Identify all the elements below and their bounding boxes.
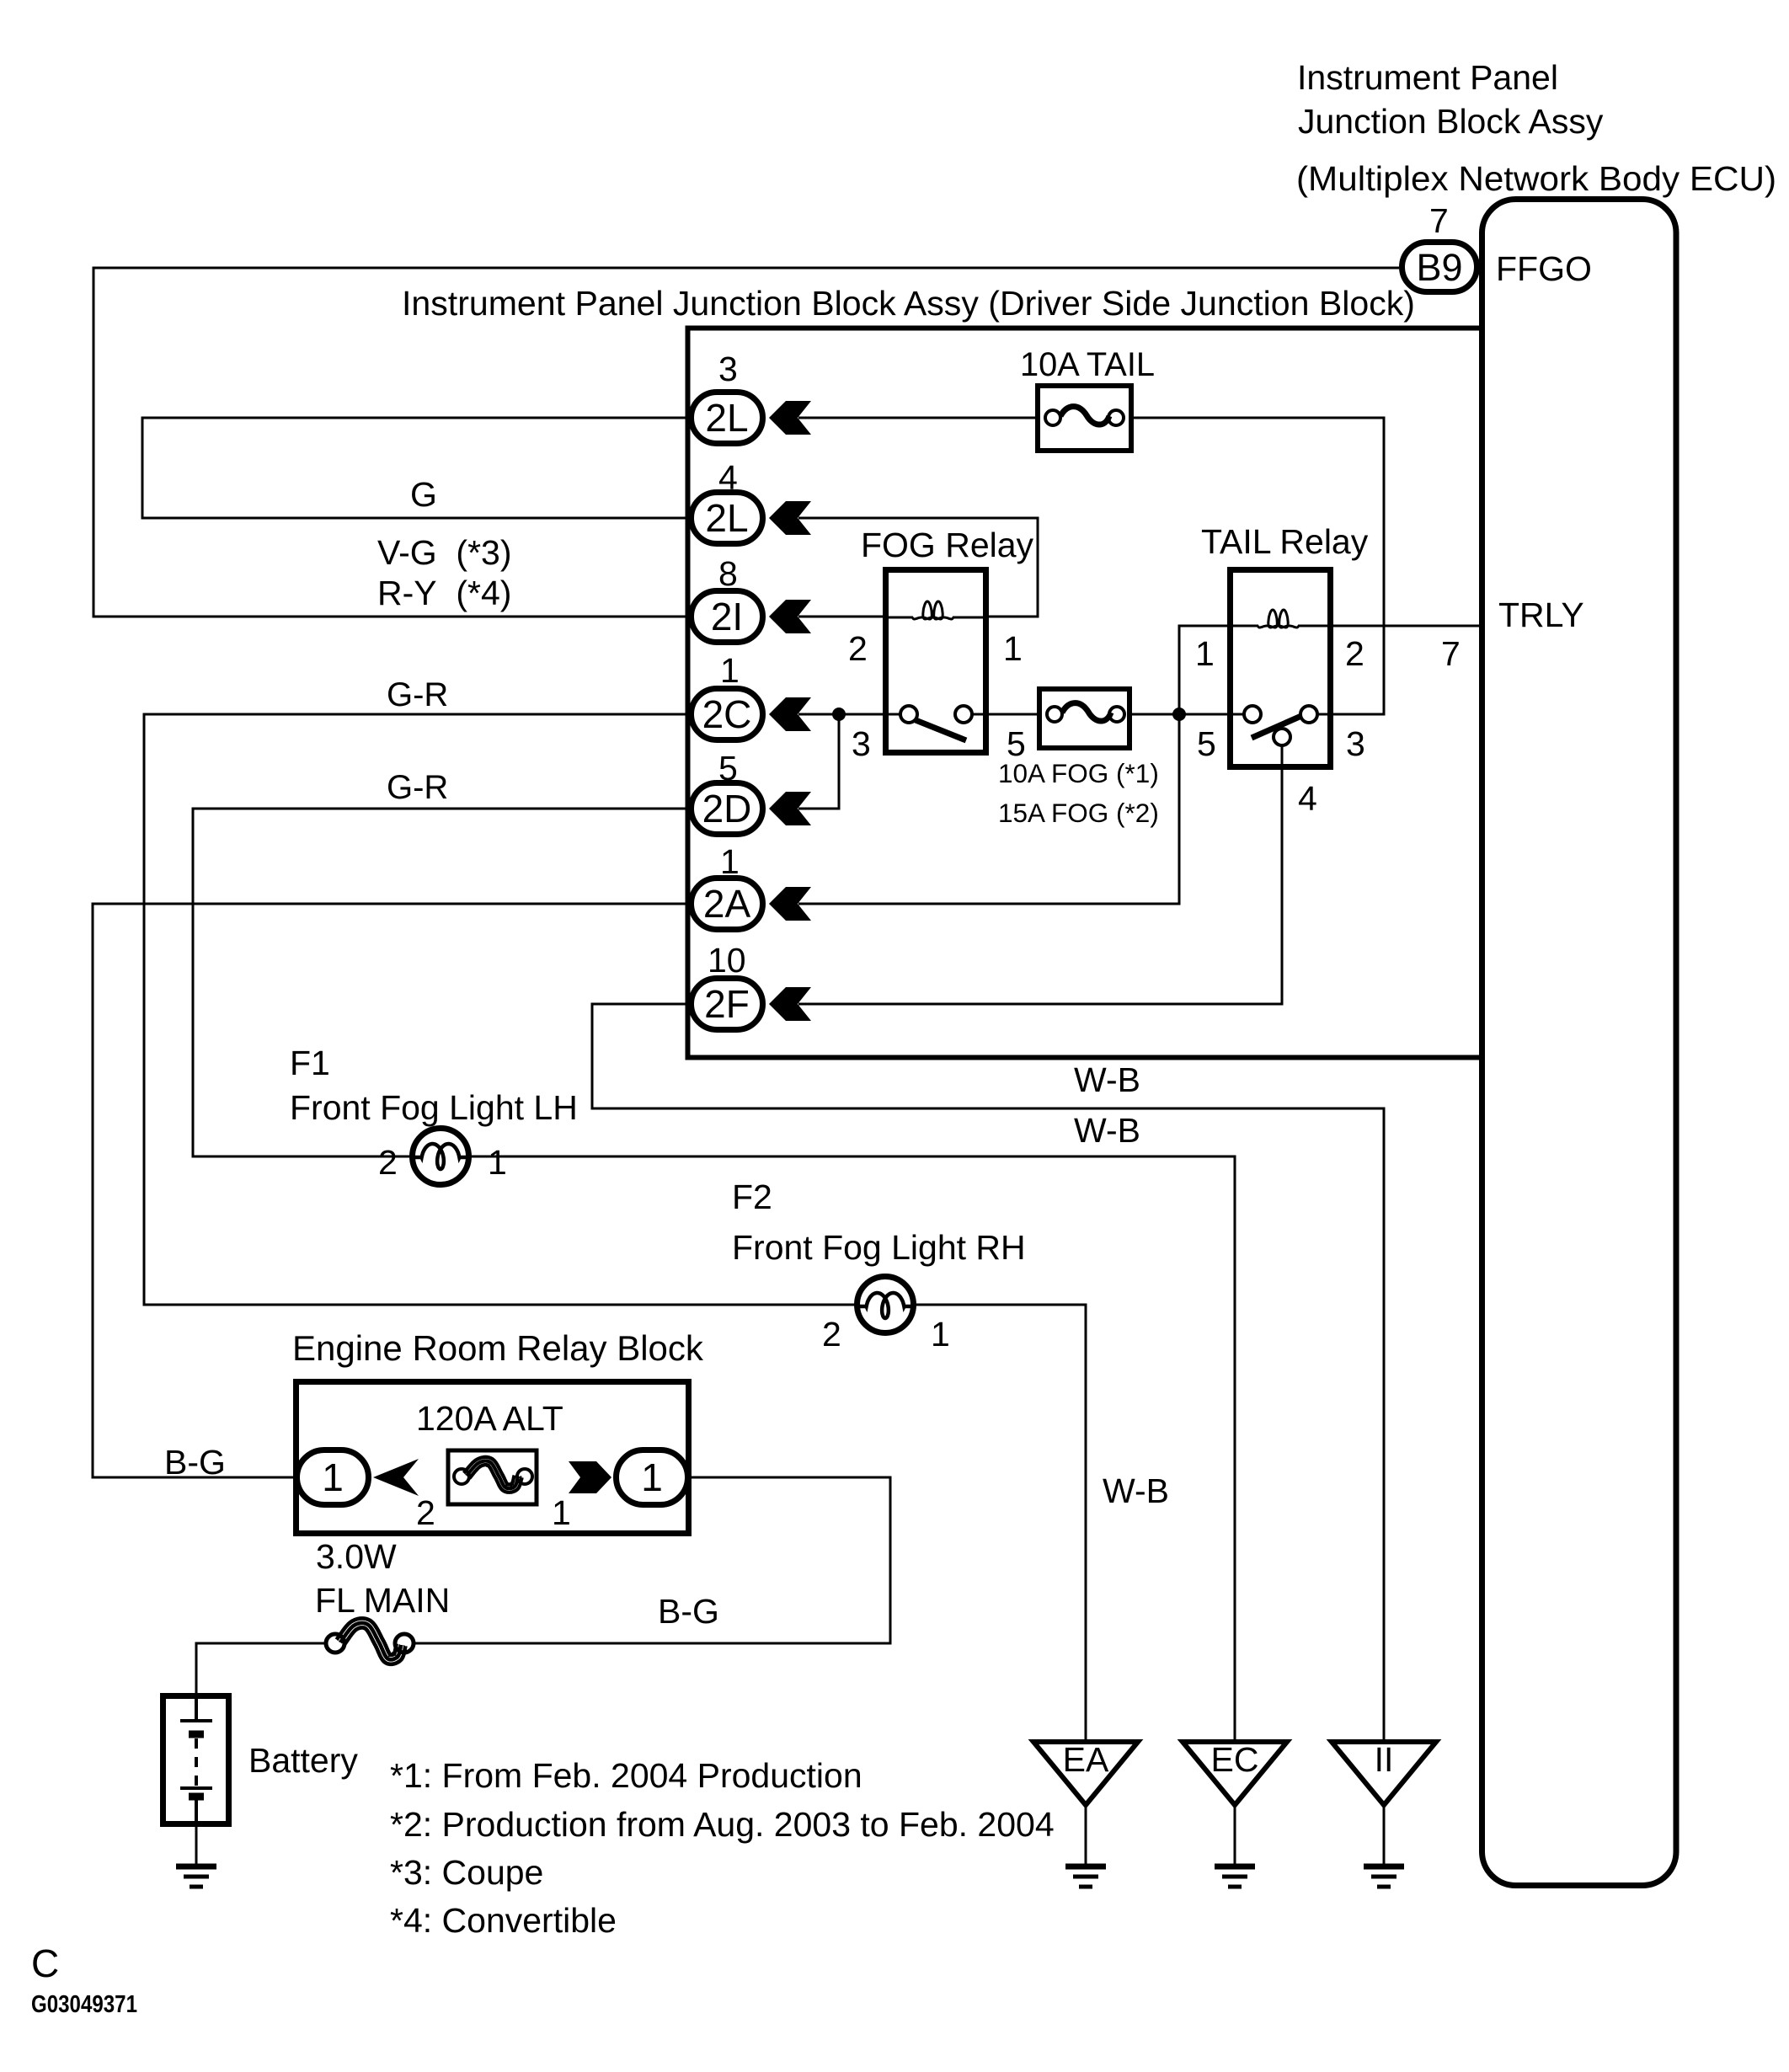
wire 2C to F2 fog light pin2 (G-R) [144, 714, 857, 1305]
ground triangle EC [1183, 1740, 1287, 1887]
engine room connector 1 (left) [297, 1450, 369, 1505]
wire battery to ground [195, 1827, 198, 1864]
svg-text:2I: 2I [711, 595, 743, 638]
svg-text:FL MAIN: FL MAIN [315, 1581, 450, 1620]
svg-text:C: C [31, 1941, 59, 1985]
svg-text:3.0W: 3.0W [316, 1537, 397, 1576]
wire 2I to FOG relay pin2 [798, 616, 885, 618]
svg-text:2: 2 [416, 1493, 435, 1532]
svg-text:2D: 2D [702, 787, 752, 830]
arrow into 2L row2 [769, 501, 811, 535]
wire 2L pin3 to 10A TAIL fuse [798, 417, 1045, 419]
battery [163, 1695, 229, 1824]
svg-text:II: II [1375, 1740, 1394, 1779]
svg-text:G-R: G-R [387, 769, 448, 806]
svg-text:1: 1 [1195, 634, 1215, 673]
wire F1 fog light pin1 to ground EC (W-B) [468, 1156, 1235, 1740]
svg-text:Engine Room Relay Block: Engine Room Relay Block [292, 1328, 704, 1368]
arrow into 2C [769, 697, 811, 731]
wire TAIL relay pin4 to 2F [798, 745, 1282, 1004]
svg-text:B-G: B-G [164, 1443, 226, 1482]
svg-text:Junction Block Assy: Junction Block Assy [1298, 102, 1604, 141]
svg-text:G03049371: G03049371 [31, 1991, 137, 2018]
connector 2L row1 [692, 393, 763, 444]
svg-text:1: 1 [720, 651, 740, 690]
wire engine room relay block to FL MAIN to battery (B-G) [414, 1477, 890, 1643]
svg-text:2: 2 [822, 1315, 841, 1354]
arrow into 2F [769, 987, 811, 1021]
fuse 10A/15A FOG [1039, 689, 1129, 748]
svg-text:1: 1 [1003, 629, 1023, 668]
fuse 10A TAIL [1038, 386, 1131, 451]
svg-text:10A FOG (*1): 10A FOG (*1) [998, 758, 1159, 788]
svg-text:FFGO: FFGO [1496, 249, 1592, 288]
ground triangle II [1332, 1740, 1436, 1887]
svg-text:2: 2 [1345, 634, 1364, 673]
svg-text:1: 1 [931, 1315, 950, 1354]
svg-text:*2: Production from Aug. 2003: *2: Production from Aug. 2003 to Feb. 20… [390, 1805, 1055, 1844]
svg-text:Battery: Battery [248, 1741, 358, 1780]
arrow into 2I [769, 600, 811, 633]
relay FOG Relay [885, 570, 986, 753]
svg-text:R-Y (*4): R-Y (*4) [377, 574, 511, 612]
svg-text:Instrument Panel Junction Bloc: Instrument Panel Junction Block Assy (Dr… [402, 284, 1415, 323]
svg-text:15A FOG (*2): 15A FOG (*2) [998, 798, 1159, 828]
wire 2D branch up to 2C node [798, 714, 839, 809]
relay TAIL Relay [1231, 570, 1332, 767]
svg-text:B-G: B-G [658, 1592, 719, 1631]
connector 2F [692, 979, 763, 1030]
engine room connector 1 (right) [617, 1450, 688, 1505]
wire 2A to engine room relay block pin1 (B-G) [93, 904, 688, 1477]
connector 2A [692, 878, 763, 930]
svg-text:F2: F2 [732, 1178, 772, 1216]
svg-text:(Multiplex Network Body ECU): (Multiplex Network Body ECU) [1296, 159, 1776, 198]
svg-text:5: 5 [1197, 724, 1216, 763]
lamp F2 Front Fog Light RH [857, 1277, 914, 1333]
wire TAIL relay pin1 to 2A [798, 626, 1230, 904]
wire 2C to FOG relay pin3 [798, 713, 900, 716]
arrow at engine room left connector [373, 1459, 419, 1496]
svg-text:3: 3 [1346, 724, 1365, 763]
svg-text:2A: 2A [703, 882, 751, 926]
connector B9 [1402, 243, 1477, 292]
junction block rect (Driver Side Junction Block) [688, 328, 1482, 1058]
engine room relay block [296, 1382, 689, 1534]
svg-text:W-B: W-B [1074, 1060, 1140, 1099]
fuse 120A ALT [448, 1450, 537, 1504]
svg-text:Front Fog Light RH: Front Fog Light RH [732, 1228, 1026, 1267]
svg-text:2: 2 [378, 1143, 398, 1182]
wire 10A FOG fuse to TAIL relay pin5 [1124, 713, 1245, 716]
svg-text:4: 4 [1298, 779, 1317, 818]
svg-text:Instrument Panel: Instrument Panel [1297, 58, 1558, 97]
wire FOG relay pin5 to 10A FOG fuse [971, 713, 1047, 716]
svg-text:120A ALT: 120A ALT [416, 1399, 563, 1438]
svg-text:TAIL Relay: TAIL Relay [1201, 522, 1369, 561]
svg-text:2: 2 [848, 629, 868, 668]
wire 2L pin4 to FOG relay pin1 [798, 518, 1038, 617]
lamp F1 Front Fog Light LH [413, 1129, 469, 1185]
svg-text:Front Fog Light LH: Front Fog Light LH [290, 1088, 578, 1127]
svg-text:EA: EA [1063, 1740, 1109, 1779]
arrow into 2D [769, 792, 811, 825]
svg-text:8: 8 [718, 554, 738, 593]
svg-text:V-G (*3): V-G (*3) [377, 533, 511, 572]
svg-text:3: 3 [718, 350, 738, 388]
svg-text:*3: Coupe: *3: Coupe [390, 1853, 543, 1892]
wire 2F to ground II (W-B) [592, 1004, 1384, 1740]
wire 10A TAIL fuse to TAIL relay pin3 [1124, 418, 1384, 714]
connector 2C [692, 689, 763, 740]
svg-text:2F: 2F [704, 982, 750, 1026]
svg-text:G: G [410, 475, 437, 514]
wire 2D to F1 fog light pin2 (G-R) [193, 809, 688, 1156]
arrow into 2A [769, 887, 811, 921]
arrow into 2L row1 [769, 401, 811, 435]
junction node at TAIL relay pin5/pin1 [1172, 708, 1186, 721]
fusible link FL MAIN [326, 1618, 414, 1663]
svg-text:1: 1 [641, 1455, 663, 1499]
svg-text:1: 1 [322, 1455, 344, 1499]
svg-text:F1: F1 [290, 1044, 330, 1082]
ground (battery) [176, 1866, 216, 1887]
svg-text:2L: 2L [705, 496, 748, 540]
ECU block (Multiplex Network Body ECU) [1482, 200, 1677, 1886]
svg-text:2C: 2C [702, 692, 752, 736]
arrow at engine room right connector [569, 1461, 611, 1493]
svg-text:7: 7 [1429, 201, 1449, 240]
svg-text:3: 3 [852, 724, 871, 763]
junction node at 2C branch [832, 708, 846, 721]
svg-text:W-B: W-B [1103, 1471, 1169, 1510]
svg-text:7: 7 [1441, 634, 1461, 673]
svg-text:10: 10 [708, 941, 746, 980]
svg-text:*4: Convertible: *4: Convertible [390, 1901, 617, 1940]
svg-text:1: 1 [488, 1143, 507, 1182]
connector 2L row2 [692, 493, 763, 544]
connector 2D [692, 783, 763, 835]
svg-text:*1: From Feb. 2004 Production: *1: From Feb. 2004 Production [390, 1756, 862, 1795]
wire 2L pin3 to 2L pin4 jumper (G) [142, 418, 688, 518]
svg-text:W-B: W-B [1074, 1111, 1140, 1150]
svg-text:B9: B9 [1416, 246, 1462, 289]
svg-text:G-R: G-R [387, 676, 448, 713]
svg-text:TRLY: TRLY [1498, 595, 1584, 634]
ground triangle EA [1033, 1740, 1138, 1887]
svg-text:1: 1 [552, 1493, 571, 1532]
wire F2 fog light pin1 to ground EA (W-B) [913, 1305, 1086, 1740]
wire B9 to 2I net (V-G / R-Y) [93, 268, 1399, 617]
svg-text:EC: EC [1211, 1740, 1259, 1779]
wire FL MAIN to battery [196, 1643, 326, 1695]
svg-text:10A TAIL: 10A TAIL [1020, 346, 1155, 383]
svg-text:2L: 2L [705, 396, 748, 440]
svg-text:FOG Relay: FOG Relay [861, 526, 1034, 564]
connector 2I [692, 591, 763, 643]
wire TAIL relay pin2 to ECU TRLY pin7 [1331, 625, 1482, 627]
